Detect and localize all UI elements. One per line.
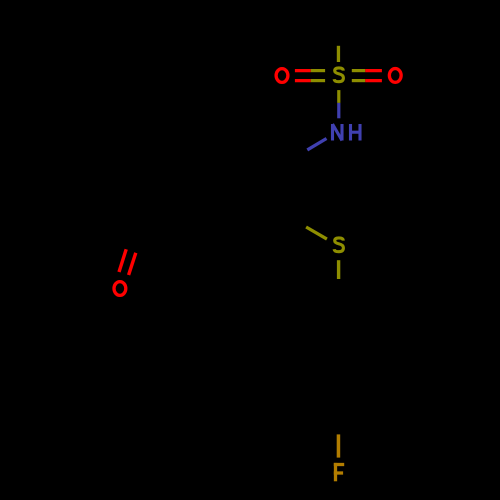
wire C(aryl)-S thioether bond (S half, olive) [306, 227, 327, 239]
sulfonyl S=O double bond left (red half + olive half, two lines) [295, 71, 325, 81]
wire S-N bond (blue half) [337, 103, 340, 118]
atom O left (red) [276, 69, 288, 83]
atom S thioether (olive letter S) [334, 238, 343, 252]
wire methyl C-S bond (S half, olive) [337, 46, 340, 62]
aldehyde C=O double bond (red halves, two lines) [119, 249, 136, 275]
atom H of NH (blue letter H) [351, 124, 361, 141]
atom O aldehyde (red) [114, 282, 126, 296]
atom F (amber letter F) [334, 463, 344, 481]
atom O right (red) [389, 69, 401, 83]
wire S-C(fluorophenyl) bond (S half, olive) [337, 260, 340, 279]
wire S-N bond (olive half) [337, 90, 340, 103]
atom S sulfonyl (olive letter S) [334, 68, 343, 82]
wire N-C(aryl) bond (blue half) [307, 139, 326, 150]
wire C-F bond (F half, amber) [337, 434, 341, 457]
sulfonyl S=O double bond right (olive half + red half, two lines) [352, 71, 382, 81]
atom N of NH (blue letter N) [333, 124, 343, 141]
